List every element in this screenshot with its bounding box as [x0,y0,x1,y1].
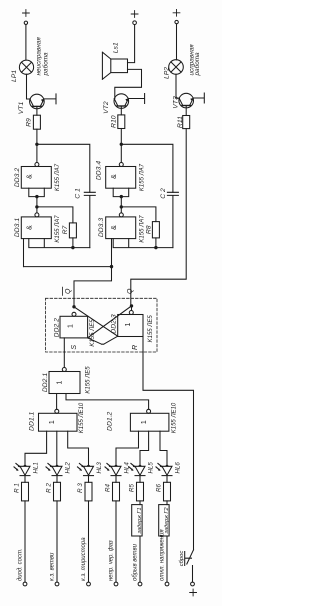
svg-text:K155 ЛА7: K155 ЛА7 [55,163,61,191]
svg-text:задерж Г2: задерж Г2 [164,507,170,534]
svg-text:DD2.3: DD2.3 [111,314,118,333]
svg-text:Q: Q [65,288,72,294]
svg-text:1: 1 [57,380,64,384]
svg-text:LP2: LP2 [164,67,171,79]
svg-text:R 2: R 2 [46,483,53,493]
svg-text:работа: работа [42,52,50,77]
svg-text:K155 ЛА7: K155 ЛА7 [55,215,61,243]
svg-text:HL1: HL1 [33,462,40,473]
svg-text:R11: R11 [177,116,184,128]
svg-text:R6: R6 [156,483,163,491]
svg-text:K155 ЛЕ5: K155 ЛЕ5 [90,319,96,347]
svg-text:R 3: R 3 [77,483,84,493]
svg-text:DD3.3: DD3.3 [98,218,105,237]
svg-text:&: & [27,225,34,230]
svg-text:R 1: R 1 [14,483,21,493]
svg-text:R7: R7 [62,225,69,234]
svg-text:K155 ЛЕ10: K155 ЛЕ10 [172,402,178,433]
svg-text:DD1.2: DD1.2 [106,411,113,430]
svg-text:R5: R5 [129,483,136,491]
svg-text:1: 1 [49,420,56,424]
svg-text:HL6: HL6 [175,462,182,474]
svg-text:DD3.4: DD3.4 [96,161,103,180]
svg-text:K155 ЛЕ5: K155 ЛЕ5 [148,315,154,343]
svg-text:R10: R10 [110,115,117,128]
svg-text:откл. напряжения: откл. напряжения [160,529,166,581]
svg-text:DD3.1: DD3.1 [14,218,21,237]
svg-text:R4: R4 [105,483,112,491]
svg-text:работа: работа [193,52,201,77]
svg-text:&: & [27,174,34,179]
svg-text:HL5: HL5 [148,462,155,474]
svg-text:HL2: HL2 [65,462,72,474]
svg-text:DD2.1: DD2.1 [42,373,49,392]
svg-text:LP1: LP1 [11,70,18,82]
svg-text:Ls1: Ls1 [113,42,120,53]
svg-text:VT1: VT1 [18,102,25,115]
svg-text:DD3.2: DD3.2 [14,168,21,187]
svg-text:1: 1 [141,420,148,424]
svg-text:обрыв ветви: обрыв ветви [133,543,139,581]
svg-text:C 1: C 1 [75,188,82,199]
svg-text:C 2: C 2 [160,188,167,199]
svg-text:задерж Г1: задерж Г1 [137,507,143,534]
svg-text:VT2: VT2 [103,101,110,114]
svg-text:K155 ЛЕ10: K155 ЛЕ10 [79,402,85,433]
svg-text:DD2.2: DD2.2 [54,318,61,337]
svg-text:K155 ЛА7: K155 ЛА7 [139,163,145,191]
svg-text:1: 1 [68,324,75,328]
svg-text:диод. сост.: диод. сост. [18,548,24,581]
svg-text:R9: R9 [26,118,33,127]
svg-text:HL3: HL3 [96,462,103,474]
svg-text:&: & [111,174,118,179]
svg-text:к.з. тиристора: к.з. тиристора [81,537,87,581]
svg-text:непр. чер. фаз: непр. чер. фаз [109,540,115,581]
svg-text:DD1.1: DD1.1 [29,411,36,430]
svg-text:R: R [132,345,139,350]
svg-text:R8: R8 [146,225,153,234]
svg-text:VT3: VT3 [173,96,180,109]
svg-text:K155 ЛА7: K155 ЛА7 [139,215,145,243]
svg-text:&: & [111,225,118,230]
svg-text:S: S [71,345,78,350]
svg-text:сброс: сброс [179,551,185,567]
svg-text:K155 ЛЕ5: K155 ЛЕ5 [86,366,92,394]
svg-text:неисправная: неисправная [35,37,42,76]
svg-text:1: 1 [125,322,132,326]
svg-text:Q: Q [127,288,134,294]
svg-text:к.з. ветви: к.з. ветви [50,552,56,581]
